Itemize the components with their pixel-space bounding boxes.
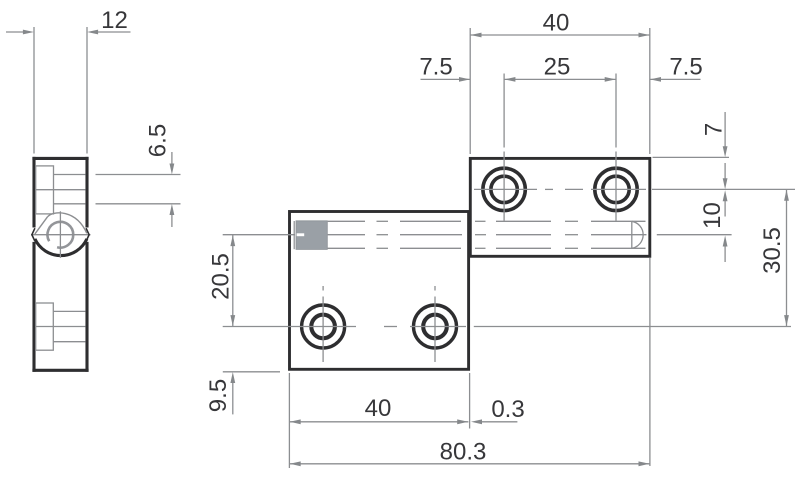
dimension 40 top extension lines xyxy=(469,28,471,154)
dimension 6.5 extension lines xyxy=(96,174,181,176)
upper hole right bore xyxy=(603,176,629,202)
dimension 30.5 line xyxy=(786,189,788,326)
upper holes horizontal centerline xyxy=(474,188,537,190)
dimension 20.5 line xyxy=(232,235,234,327)
lower hole right bore xyxy=(423,315,447,339)
lower holes horizontal centerline xyxy=(223,326,356,328)
dimension 9.5 extension line plate bottom xyxy=(223,371,280,373)
dimension 7.5 right xyxy=(650,78,701,80)
side view lower counterbore rectangle xyxy=(36,303,54,350)
svg-text:25: 25 xyxy=(544,53,571,80)
dimension 7.5 left xyxy=(421,78,471,80)
dimension 7 extension line plate top xyxy=(653,156,730,158)
lower hole left bore xyxy=(311,315,335,339)
dimension 12 extension lines xyxy=(33,27,35,154)
side view upper hole centerline xyxy=(36,189,86,191)
dimension 80.3 extension line xyxy=(649,258,651,466)
dimension 6.5 arrows xyxy=(171,152,173,164)
pin end dome xyxy=(631,221,633,248)
side view lower hole centerline xyxy=(36,326,86,328)
lower hole right vertical centerline xyxy=(434,286,436,291)
svg-text:9.5: 9.5 xyxy=(205,379,232,412)
side view barrel knuckle curl xyxy=(35,217,48,234)
side view pin thread C-ring xyxy=(47,222,73,248)
upper hinge leaf plate xyxy=(470,158,650,256)
upper hole left counterbore xyxy=(483,168,525,210)
svg-text:40: 40 xyxy=(543,9,570,36)
lower hinge leaf plate xyxy=(290,212,469,370)
side view right edge notch xyxy=(86,228,89,241)
dimension 25 line xyxy=(504,78,616,80)
upper hole left vertical centerline xyxy=(503,74,505,148)
pin head gray block xyxy=(296,221,327,250)
lower hole left counterbore xyxy=(302,305,345,348)
upper hole left bore xyxy=(491,176,517,202)
side view upper counterbore rectangle xyxy=(36,166,54,214)
dimension 7 arrows xyxy=(724,112,726,147)
svg-text:40: 40 xyxy=(365,395,392,422)
dimension 80.3 line xyxy=(289,463,649,465)
dimension 9.5 arrow xyxy=(232,383,234,415)
side view left edge notch xyxy=(32,228,35,241)
dimension 0.3 arrow xyxy=(471,419,482,424)
side view upper hole lines xyxy=(54,174,86,176)
side view outline (hinge edge view) xyxy=(32,157,88,160)
pin hidden line top xyxy=(328,220,365,222)
lower hole right counterbore xyxy=(414,305,457,348)
svg-text:6.5: 6.5 xyxy=(144,124,171,157)
svg-text:0.3: 0.3 xyxy=(491,396,524,423)
pin hidden line bottom xyxy=(328,247,365,249)
dimension 40 bottom line xyxy=(289,421,468,423)
svg-text:7.5: 7.5 xyxy=(669,53,702,80)
dimension 40-0.3 extension lines xyxy=(288,373,290,468)
upper hole right counterbore xyxy=(595,168,637,210)
upper hole right vertical centerline xyxy=(615,74,617,148)
svg-text:80.3: 80.3 xyxy=(440,438,487,465)
side view barrel crosshair xyxy=(59,211,61,258)
lower hole left vertical centerline xyxy=(322,286,324,291)
dimension 12 arrows xyxy=(6,31,24,33)
side view barrel thick bottom arc xyxy=(35,239,87,256)
svg-text:30.5: 30.5 xyxy=(759,227,786,274)
side view lower hole lines xyxy=(53,310,85,312)
pin centerline xyxy=(223,234,295,236)
svg-text:12: 12 xyxy=(101,7,128,34)
dimension 10 arrows xyxy=(724,163,726,179)
svg-text:10: 10 xyxy=(699,202,726,229)
svg-text:20.5: 20.5 xyxy=(207,253,234,300)
svg-text:7.5: 7.5 xyxy=(419,53,452,80)
dimension 40 top line xyxy=(470,34,650,36)
svg-text:7: 7 xyxy=(700,123,727,136)
